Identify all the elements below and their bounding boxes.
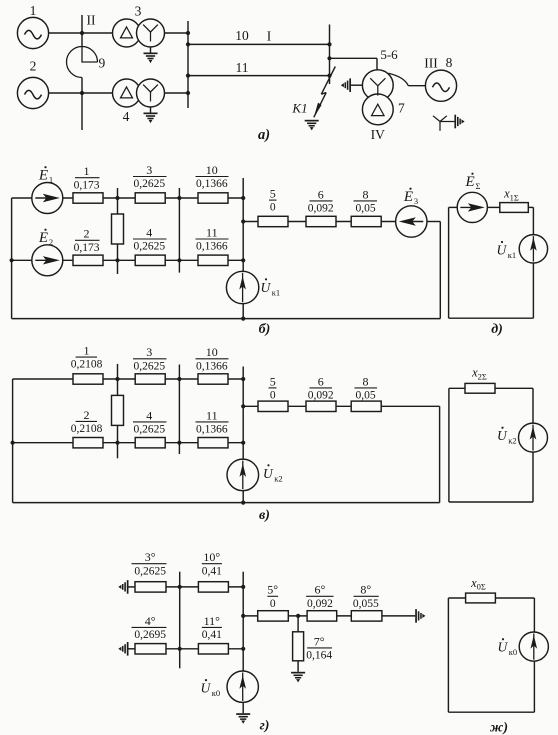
svg-text:10: 10 xyxy=(235,28,249,43)
svg-text:0,2625: 0,2625 xyxy=(133,360,165,372)
svg-text:0,092: 0,092 xyxy=(308,390,334,402)
svg-text:10°: 10° xyxy=(203,550,220,564)
svg-text:4: 4 xyxy=(123,109,130,124)
svg-text:IV: IV xyxy=(371,127,385,142)
svg-text:д): д) xyxy=(491,322,503,337)
svg-text:11: 11 xyxy=(236,60,249,75)
svg-text:4: 4 xyxy=(146,408,152,422)
svg-text:3: 3 xyxy=(146,345,152,359)
svg-text:0,1366: 0,1366 xyxy=(196,241,228,253)
svg-text:1: 1 xyxy=(84,164,90,178)
svg-text:6°: 6° xyxy=(314,583,325,597)
svg-text:2: 2 xyxy=(84,227,90,241)
svg-text:ж): ж) xyxy=(490,721,508,735)
svg-text:б): б) xyxy=(259,322,271,337)
svg-text:0,2695: 0,2695 xyxy=(134,629,166,641)
svg-text:0,41: 0,41 xyxy=(202,565,222,577)
svg-text:0,05: 0,05 xyxy=(355,203,375,215)
svg-text:8: 8 xyxy=(446,55,453,70)
svg-text:2: 2 xyxy=(84,408,90,422)
svg-text:а): а) xyxy=(258,127,270,143)
svg-text:0,05: 0,05 xyxy=(355,390,375,402)
svg-text:0,1366: 0,1366 xyxy=(196,424,228,436)
svg-text:2: 2 xyxy=(30,59,37,74)
svg-text:0: 0 xyxy=(270,598,276,610)
svg-text:0: 0 xyxy=(270,390,276,402)
svg-text:II: II xyxy=(87,13,96,28)
svg-text:0,173: 0,173 xyxy=(74,242,100,254)
svg-text:0,092: 0,092 xyxy=(308,203,334,215)
svg-text:0,2108: 0,2108 xyxy=(71,423,103,435)
svg-text:0,164: 0,164 xyxy=(306,650,332,662)
svg-text:8: 8 xyxy=(363,374,369,388)
svg-text:K1: K1 xyxy=(291,101,307,116)
svg-text:0,1366: 0,1366 xyxy=(196,360,228,372)
svg-text:4: 4 xyxy=(146,225,152,239)
svg-text:0: 0 xyxy=(270,202,276,214)
svg-text:0,2625: 0,2625 xyxy=(134,565,166,577)
svg-text:7°: 7° xyxy=(314,634,325,648)
svg-text:3°: 3° xyxy=(145,550,156,564)
svg-text:3: 3 xyxy=(135,4,142,19)
svg-text:9: 9 xyxy=(99,56,106,71)
svg-text:0,1366: 0,1366 xyxy=(196,178,228,190)
svg-text:0,2108: 0,2108 xyxy=(71,359,103,371)
svg-text:10: 10 xyxy=(206,345,218,359)
svg-text:5: 5 xyxy=(270,374,276,388)
svg-text:10: 10 xyxy=(206,163,218,177)
svg-text:в): в) xyxy=(259,508,270,523)
svg-text:3: 3 xyxy=(146,163,152,177)
svg-text:11: 11 xyxy=(206,408,218,422)
svg-text:III: III xyxy=(424,56,438,71)
svg-text:8: 8 xyxy=(363,187,369,201)
svg-text:5: 5 xyxy=(270,187,276,201)
svg-text:0,092: 0,092 xyxy=(307,598,333,610)
svg-text:1: 1 xyxy=(30,3,37,18)
svg-text:5°: 5° xyxy=(267,583,278,597)
svg-text:0,055: 0,055 xyxy=(353,598,379,610)
svg-text:4°: 4° xyxy=(145,614,156,628)
svg-text:г): г) xyxy=(260,719,270,734)
svg-text:I: I xyxy=(267,29,272,44)
svg-text:0,2625: 0,2625 xyxy=(133,424,165,436)
svg-text:8°: 8° xyxy=(360,583,371,597)
svg-text:11°: 11° xyxy=(204,614,221,628)
svg-text:7: 7 xyxy=(398,101,405,116)
svg-text:1: 1 xyxy=(84,344,90,358)
svg-text:0,41: 0,41 xyxy=(202,629,222,641)
svg-text:11: 11 xyxy=(206,225,218,239)
svg-text:0,173: 0,173 xyxy=(74,179,100,191)
svg-text:5-6: 5-6 xyxy=(380,47,398,62)
svg-text:6: 6 xyxy=(318,374,324,388)
svg-text:0,2625: 0,2625 xyxy=(133,241,165,253)
svg-text:0,2625: 0,2625 xyxy=(133,178,165,190)
svg-text:6: 6 xyxy=(318,187,324,201)
